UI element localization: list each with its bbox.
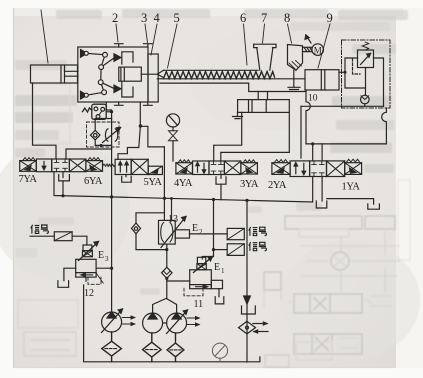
svg-text:6: 6 bbox=[240, 11, 246, 25]
svg-text:3: 3 bbox=[141, 11, 147, 25]
svg-text:E: E bbox=[192, 223, 198, 234]
svg-text:2YA: 2YA bbox=[268, 180, 287, 191]
svg-text:8: 8 bbox=[284, 11, 290, 25]
svg-text:E: E bbox=[98, 250, 104, 261]
svg-text:10: 10 bbox=[308, 94, 318, 104]
svg-text:7: 7 bbox=[261, 11, 267, 25]
svg-text:1: 1 bbox=[221, 267, 225, 275]
svg-text:4YA: 4YA bbox=[174, 178, 193, 189]
svg-text:E: E bbox=[214, 262, 220, 273]
svg-text:11: 11 bbox=[194, 299, 204, 310]
svg-text:2: 2 bbox=[199, 228, 203, 236]
svg-text:6YA: 6YA bbox=[84, 176, 103, 187]
svg-text:5YA: 5YA bbox=[144, 177, 163, 188]
svg-text:7YA: 7YA bbox=[19, 174, 38, 185]
svg-text:12: 12 bbox=[84, 288, 94, 299]
svg-text:5: 5 bbox=[174, 11, 180, 25]
svg-text:1YA: 1YA bbox=[342, 182, 361, 193]
svg-text:13: 13 bbox=[168, 214, 178, 225]
svg-text:M: M bbox=[314, 46, 322, 56]
svg-text:4: 4 bbox=[154, 11, 161, 25]
svg-text:9: 9 bbox=[327, 11, 333, 25]
svg-text:3: 3 bbox=[105, 255, 109, 263]
svg-text:2: 2 bbox=[112, 11, 118, 25]
svg-text:3YA: 3YA bbox=[240, 179, 259, 190]
